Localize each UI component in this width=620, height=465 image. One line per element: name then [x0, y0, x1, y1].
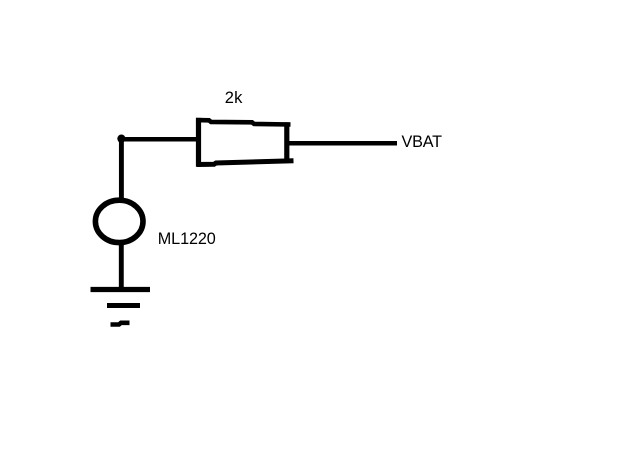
battery cell ML1220: [95, 200, 143, 242]
resistor R1 2k: [196, 118, 294, 167]
node junction: [117, 135, 125, 143]
svg-text:2k: 2k: [225, 89, 243, 107]
svg-text:VBAT: VBAT: [402, 133, 443, 151]
wire: [119, 244, 124, 289]
wire: [289, 141, 397, 146]
svg-text:ML1220: ML1220: [158, 230, 216, 248]
wire: [118, 137, 198, 142]
wire: [119, 139, 124, 199]
ground: [91, 290, 151, 325]
